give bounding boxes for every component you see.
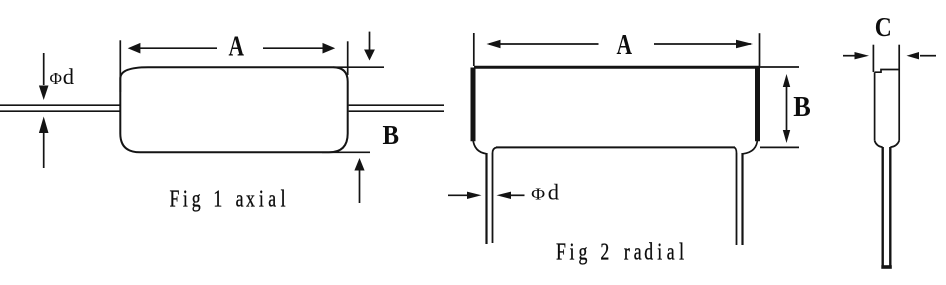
svg-text:B: B: [383, 120, 400, 150]
body Fig2 bottom-left corner into lead: [473, 139, 487, 154]
arrowhead right (dimension A): [323, 43, 336, 54]
svg-text:A: A: [229, 30, 245, 62]
body Fig3 right side: [898, 70, 900, 141]
arrow shaft left-pointing (dimension C): [920, 55, 936, 57]
extension line left (Fig2 dimension A): [473, 33, 475, 66]
wire: Fig2 left lead left line: [485, 153, 487, 244]
dimension line A right segment: [263, 47, 325, 49]
wire: left lead upper line: [0, 104, 120, 106]
extension line right (dimension C): [898, 45, 900, 70]
body Fig1 (axial component outline): [120, 67, 347, 152]
body Fig2 bottom edge corner to right lead: [734, 147, 737, 153]
extension line upper (Fig2 dimension B): [760, 66, 799, 68]
arrowhead up (Fig2 dimension B): [783, 74, 790, 87]
extension line left (dimension C): [872, 45, 874, 72]
dimension line A right segment (Fig2): [654, 43, 751, 45]
arrowhead left (Fig2 dimension A): [487, 40, 501, 48]
extension line top right (B upper): [333, 66, 384, 68]
arrowhead right-pointing (Fig2 d): [467, 192, 482, 199]
arrow shaft up (B lower pointer): [359, 168, 361, 203]
dimension line B shaft (Fig2): [786, 80, 788, 137]
body Fig3 top edge (stepped): [875, 70, 900, 73]
svg-text:Φ: Φ: [531, 185, 545, 204]
arrowhead up (d lower pointer): [39, 117, 49, 134]
dimension line A left segment: [138, 47, 217, 49]
wire: Fig2 right lead right line: [741, 153, 743, 245]
svg-text:d: d: [548, 180, 559, 205]
wire: right lead lower line: [349, 110, 444, 112]
wire: Fig2 right lead left line: [736, 153, 738, 245]
arrow shaft right-pointing (Fig2 d): [448, 194, 468, 196]
arrow shaft left-pointing (Fig2 d): [510, 194, 525, 196]
arrowhead right-pointing (dimension C): [855, 52, 870, 59]
svg-text:d: d: [63, 64, 74, 89]
svg-text:A: A: [617, 29, 633, 61]
arrowhead down (B upper pointer): [364, 50, 375, 61]
body Fig2 bottom-right corner into lead: [743, 139, 758, 154]
wire: Fig3 lead right line: [889, 147, 891, 266]
svg-text:C: C: [875, 12, 892, 42]
arrowhead down (Fig2 dimension B): [783, 130, 790, 143]
body Fig3 taper left: [875, 141, 883, 148]
arrowhead left-pointing (Fig2 d): [497, 192, 512, 199]
body Fig2 bottom edge: [496, 146, 735, 148]
body Fig3 left side: [874, 72, 876, 141]
wire: Fig3 lead bottom cap: [881, 265, 892, 269]
extension line left (dimension A): [119, 40, 121, 92]
body Fig2 top edge: [474, 66, 760, 69]
extension line bottom right (B lower): [322, 151, 370, 153]
wire: Fig2 left lead right line: [492, 153, 494, 243]
body Fig2 bottom edge corner to left lead: [493, 147, 498, 153]
body Fig2 right edge (thick): [755, 68, 760, 142]
arrow shaft down (B upper pointer): [369, 32, 371, 51]
arrowhead up (B lower pointer): [354, 158, 364, 171]
wire: left lead lower line: [0, 110, 120, 112]
body Fig3 taper right: [890, 141, 899, 148]
wire: Fig3 lead left line: [882, 147, 884, 266]
arrow shaft right-pointing (dimension C): [843, 55, 856, 57]
arrowhead left (dimension A): [128, 43, 141, 54]
arrowhead right (Fig2 dimension A): [736, 40, 753, 48]
svg-text:Φ: Φ: [50, 69, 63, 88]
dimension line A left segment (Fig2): [489, 43, 599, 45]
arrow shaft down (d upper pointer): [43, 53, 45, 85]
body Fig2 left edge (thick): [471, 68, 476, 142]
svg-text:Fig 1 axial: Fig 1 axial: [169, 185, 285, 212]
arrow shaft up (d lower pointer): [43, 131, 45, 168]
arrowhead down (d upper pointer): [39, 86, 49, 101]
wire: right lead upper line: [349, 104, 444, 106]
extension line lower (Fig2 dimension B): [760, 146, 799, 148]
arrowhead left-pointing (dimension C): [907, 52, 920, 59]
extension line right (Fig2 dimension A): [759, 33, 761, 66]
svg-text:B: B: [793, 92, 811, 123]
extension line right (dimension A): [347, 41, 349, 75]
